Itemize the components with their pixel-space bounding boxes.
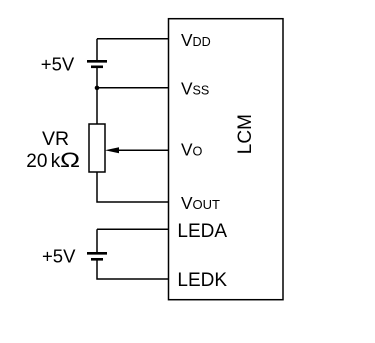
svg-text:VO: VO [181, 140, 203, 160]
svg-text:LEDK: LEDK [177, 270, 227, 291]
svg-text:VSS: VSS [181, 79, 209, 99]
svg-text:+5V: +5V [42, 245, 76, 266]
svg-text:VR: VR [42, 128, 69, 150]
svg-text:LEDA: LEDA [177, 221, 227, 242]
svg-text:VDD: VDD [181, 30, 211, 50]
svg-text:VOUT: VOUT [181, 193, 220, 213]
svg-text:20k: 20k [26, 151, 60, 172]
svg-text:Ω: Ω [60, 149, 80, 173]
svg-text:+5V: +5V [41, 53, 75, 74]
svg-text:LCM: LCM [235, 114, 256, 154]
